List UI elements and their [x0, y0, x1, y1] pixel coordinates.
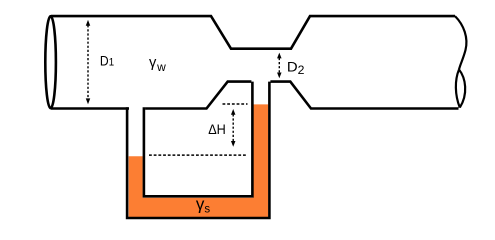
manometer outer wall	[127, 82, 269, 218]
pipe top profile with venturi	[51, 16, 455, 49]
pipe break lens right arc	[459, 70, 465, 108]
pipe bottom right segment with venturi slope	[270, 82, 458, 109]
delta-H dimension arrow (dashed, double head)	[231, 109, 236, 147]
right fluid level dashed line	[223, 103, 248, 105]
D2 dimension arrow (dashed, double head)	[277, 53, 282, 79]
svg-text:ΔH: ΔH	[208, 122, 226, 137]
D1 dimension arrow (dashed, double head)	[86, 20, 91, 104]
manometer inner wall	[144, 82, 253, 197]
manometer fluid (orange)	[129, 104, 269, 217]
pipe end cap ellipse (left)	[45, 16, 56, 108]
pipe bottom middle segment with venturi slope	[145, 82, 251, 109]
pipe bottom line left segment	[51, 107, 129, 110]
svg-text:D1: D1	[100, 53, 114, 68]
pipe break lens left arc	[456, 70, 460, 108]
pipe break squiggle (right end)	[455, 16, 466, 69]
left fluid level dashed line	[149, 154, 247, 156]
